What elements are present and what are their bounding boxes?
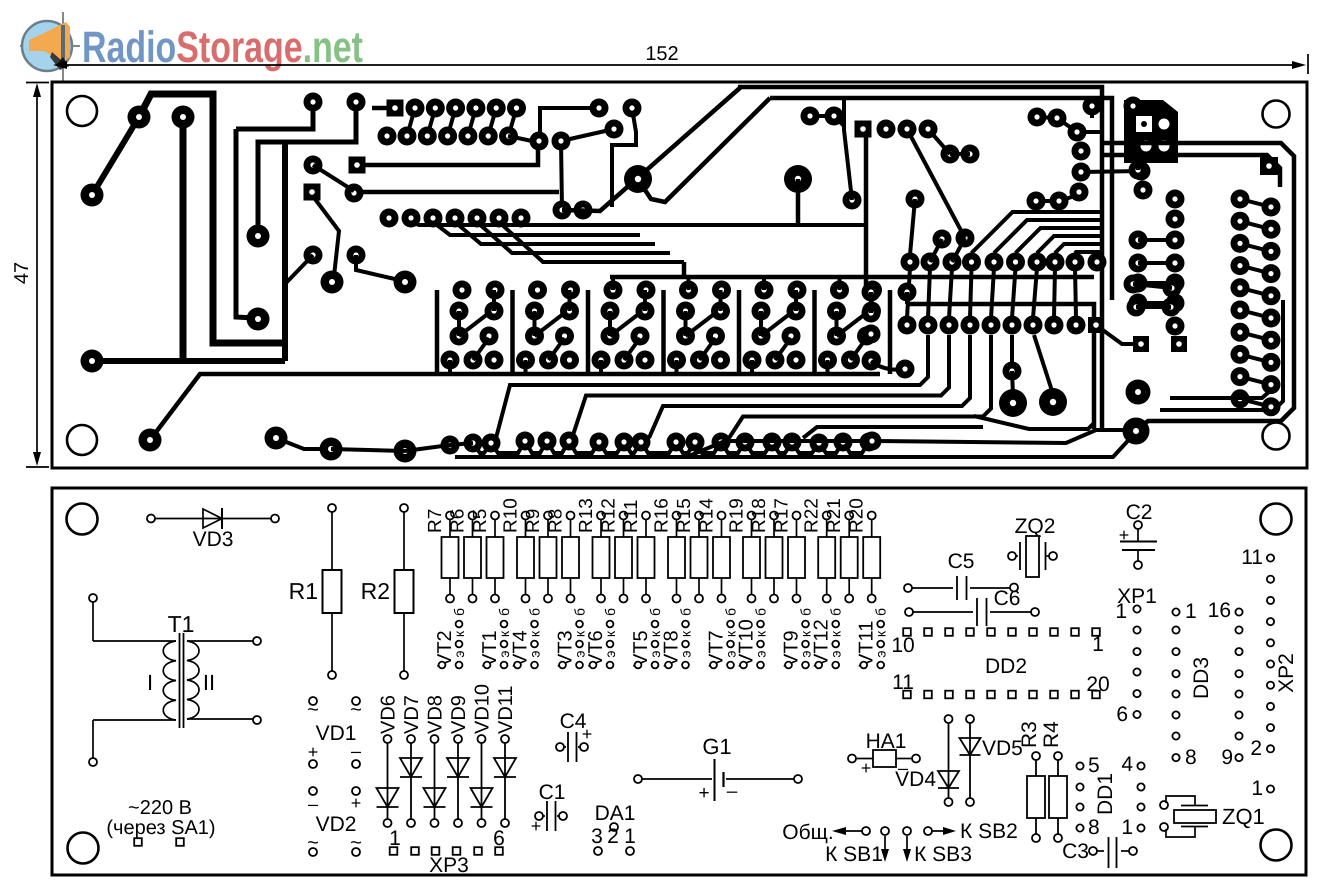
svg-text:к: к	[451, 630, 467, 637]
svg-text:4: 4	[1121, 753, 1133, 776]
svg-text:R15: R15	[674, 498, 695, 533]
svg-text:R7: R7	[425, 509, 446, 533]
svg-text:16: 16	[1208, 599, 1231, 622]
svg-text:+: +	[582, 724, 593, 744]
svg-text:к: к	[828, 630, 844, 637]
svg-text:б: б	[723, 608, 739, 616]
svg-text:R6: R6	[448, 509, 469, 533]
svg-text:R19: R19	[727, 498, 748, 533]
svg-text:R3: R3	[1018, 721, 1041, 748]
svg-text:R8: R8	[546, 509, 567, 533]
svg-text:R1: R1	[289, 578, 318, 604]
svg-text:~: ~	[307, 699, 319, 721]
svg-text:б: б	[572, 608, 588, 616]
svg-text:+: +	[351, 793, 362, 813]
svg-text:C6: C6	[994, 587, 1021, 610]
svg-text:R20: R20	[847, 498, 868, 533]
svg-text:R9: R9	[523, 509, 544, 533]
svg-text:~: ~	[350, 832, 362, 854]
svg-text:DD1: DD1	[1094, 773, 1117, 815]
svg-text:XP2: XP2	[1275, 653, 1298, 693]
svg-text:э: э	[828, 650, 844, 657]
svg-text:+: +	[531, 816, 542, 836]
svg-text:R22: R22	[802, 498, 823, 533]
svg-text:б: б	[527, 608, 543, 616]
svg-text:6: 6	[1116, 703, 1128, 726]
svg-text:б: б	[873, 608, 889, 616]
svg-text:VD9: VD9	[448, 695, 470, 734]
svg-text:VD8: VD8	[425, 695, 447, 734]
svg-text:XP3: XP3	[429, 854, 469, 877]
svg-text:DA1: DA1	[595, 802, 636, 825]
svg-text:~: ~	[350, 699, 362, 721]
svg-text:I: I	[147, 670, 153, 695]
svg-text:R12: R12	[599, 498, 620, 533]
svg-text:1: 1	[1185, 600, 1197, 623]
svg-text:R21: R21	[824, 498, 845, 533]
svg-text:VD4: VD4	[895, 768, 936, 791]
svg-text:–: –	[351, 741, 361, 761]
svg-text:R5: R5	[470, 509, 491, 533]
svg-text:+: +	[308, 742, 319, 762]
svg-text:VD3: VD3	[193, 528, 234, 551]
svg-text:1: 1	[1115, 600, 1127, 623]
svg-text:(через SA1): (через SA1)	[106, 817, 215, 839]
svg-text:1: 1	[624, 825, 636, 848]
svg-text:9: 9	[1221, 746, 1233, 769]
svg-text:э: э	[753, 650, 769, 657]
svg-text:б: б	[753, 608, 769, 616]
svg-text:R4: R4	[1040, 721, 1063, 748]
svg-text:C1: C1	[539, 781, 566, 804]
svg-text:э: э	[451, 650, 467, 657]
svg-text:б: б	[798, 608, 814, 616]
svg-text:G1: G1	[702, 734, 731, 759]
svg-text:б: б	[678, 608, 694, 616]
svg-text:3: 3	[591, 825, 603, 848]
svg-text:к: к	[873, 630, 889, 637]
svg-text:VT11: VT11	[856, 621, 878, 667]
svg-text:R11: R11	[621, 500, 642, 533]
svg-text:2: 2	[1250, 737, 1262, 760]
svg-text:+: +	[1119, 525, 1130, 545]
svg-text:э: э	[527, 650, 543, 657]
svg-text:VD5: VD5	[982, 737, 1023, 760]
svg-text:К SB1: К SB1	[825, 843, 883, 866]
svg-text:К SB3: К SB3	[914, 843, 972, 866]
svg-text:Общ.: Общ.	[782, 821, 833, 844]
svg-text:1: 1	[1092, 633, 1104, 656]
svg-text:к: к	[602, 630, 618, 637]
svg-text:T1: T1	[168, 611, 195, 637]
svg-text:VT12: VT12	[811, 619, 833, 667]
svg-text:э: э	[873, 650, 889, 657]
svg-text:R13: R13	[576, 498, 597, 533]
svg-text:10: 10	[891, 634, 914, 657]
svg-text:VD7: VD7	[401, 695, 423, 734]
svg-text:R17: R17	[772, 498, 793, 533]
svg-text:R16: R16	[652, 498, 673, 533]
svg-text:DD2: DD2	[985, 655, 1027, 678]
svg-text:C3: C3	[1062, 840, 1089, 863]
svg-text:1: 1	[1121, 816, 1133, 839]
svg-text:R10: R10	[501, 498, 522, 533]
svg-text:R2: R2	[361, 578, 390, 604]
svg-text:2: 2	[607, 825, 619, 848]
svg-text:VD6: VD6	[378, 695, 400, 734]
svg-text:152: 152	[645, 43, 678, 65]
svg-text:8: 8	[1088, 816, 1100, 839]
svg-text:б: б	[602, 608, 618, 616]
svg-text:–: –	[727, 781, 738, 802]
svg-text:+: +	[861, 758, 872, 778]
svg-text:11: 11	[1241, 546, 1263, 569]
svg-text:~: ~	[307, 832, 319, 854]
svg-text:к: к	[678, 630, 694, 637]
svg-text:б: б	[828, 608, 844, 616]
svg-text:~220 В: ~220 В	[128, 797, 192, 819]
svg-text:47: 47	[11, 262, 33, 284]
svg-text:R18: R18	[749, 498, 770, 533]
svg-text:ZQ1: ZQ1	[1222, 804, 1265, 829]
svg-text:э: э	[678, 650, 694, 657]
svg-text:–: –	[308, 794, 318, 814]
svg-text:R14: R14	[697, 498, 718, 533]
svg-text:VT10: VT10	[736, 619, 758, 667]
svg-text:1: 1	[1251, 777, 1263, 800]
svg-text:+: +	[698, 783, 709, 804]
svg-text:к: к	[527, 630, 543, 637]
svg-text:э: э	[602, 650, 618, 657]
svg-text:C5: C5	[948, 550, 975, 573]
svg-text:к: к	[753, 630, 769, 637]
svg-text:б: б	[496, 608, 512, 616]
svg-text:VD11: VD11	[495, 685, 517, 734]
svg-text:VD10: VD10	[472, 684, 494, 734]
svg-text:II: II	[203, 670, 215, 695]
svg-text:ZQ2: ZQ2	[1015, 515, 1056, 538]
svg-text:К SB2: К SB2	[960, 820, 1018, 843]
svg-text:б: б	[647, 608, 663, 616]
svg-text:11: 11	[892, 671, 914, 694]
svg-text:20: 20	[1086, 673, 1109, 696]
svg-text:б: б	[451, 608, 467, 616]
svg-text:8: 8	[1185, 746, 1197, 769]
svg-text:DD3: DD3	[1190, 657, 1213, 699]
